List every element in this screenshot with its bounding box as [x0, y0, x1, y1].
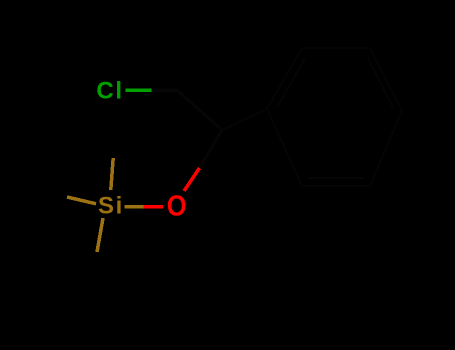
wire bond CH2-C1 [177, 90, 222, 130]
svg-text:Si: Si [98, 193, 124, 220]
ring edge A-B [267, 48, 302, 109]
bond Si-O (silicon half) [124, 205, 143, 209]
bond Cl-CH2 (carbon half) [152, 88, 178, 92]
bond Si-O (oxygen half, red) [144, 205, 164, 209]
bond C1-ring ipso [222, 109, 267, 130]
bond Cl-CH2 (green half) [126, 88, 152, 92]
ring edge B-C [302, 47, 370, 49]
ring edge E-F [302, 185, 370, 187]
bond Si-CH3 down [97, 218, 103, 252]
svg-text:O: O [167, 189, 187, 222]
ring edge D-E [370, 111, 402, 186]
bond C1-O (oxygen half, red) [184, 168, 200, 191]
ring edge F-A [267, 109, 302, 186]
bond Si-CH3 left [67, 197, 96, 204]
double bond inner E-F [308, 177, 364, 179]
double bond inner A-B [278, 58, 306, 107]
bond Si-CH3 up [111, 158, 113, 190]
benzene ring [267, 48, 402, 186]
bond C1-O (carbon half) [200, 130, 223, 168]
svg-text:Cl: Cl [96, 78, 123, 105]
double bond inner C-D [368, 58, 394, 109]
ring edge C-D [370, 48, 402, 111]
